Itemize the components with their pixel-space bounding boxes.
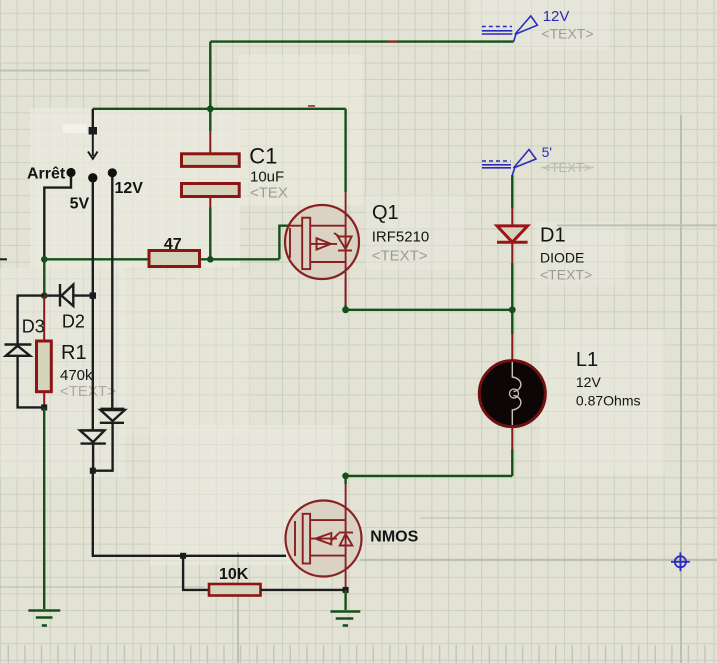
capacitor C1 pin bottom xyxy=(209,197,211,208)
wire to NMOS gate xyxy=(93,471,286,556)
svg-text:<TEXT>: <TEXT> xyxy=(372,248,428,265)
wire NMOS source to ground xyxy=(344,590,346,610)
node junction D2-5V xyxy=(90,292,96,298)
wire C1 bottom to gate net xyxy=(209,208,211,260)
wire D3 to junction B xyxy=(18,356,45,408)
wire gate net down to R1 xyxy=(43,259,45,295)
svg-text:<TEX: <TEX xyxy=(250,184,288,201)
diode D1 xyxy=(497,208,528,263)
transistor Q1 xyxy=(285,192,359,305)
terminal dot 12V xyxy=(108,168,117,177)
wire 12V rail horizontal xyxy=(210,40,513,42)
svg-text:D3: D3 xyxy=(22,317,45,337)
wire 12V diode to 5V line xyxy=(93,423,113,471)
diode series 5V line xyxy=(80,430,106,443)
wire lamp bottom xyxy=(511,426,513,449)
svg-text:<TEXT>: <TEXT> xyxy=(541,25,593,41)
svg-text:<TEXT>: <TEXT> xyxy=(540,266,592,282)
wire tee down to 10K xyxy=(183,556,209,590)
wire Q1 source from rail xyxy=(344,109,346,193)
wire switch drop black xyxy=(92,109,94,127)
wire 10K to NMOS source xyxy=(261,589,346,591)
wire rail drop to C1 junction xyxy=(209,42,211,109)
left edge dash artifact xyxy=(0,258,7,260)
switch actuator arrow xyxy=(88,135,98,159)
switch contact square xyxy=(89,127,97,135)
diode series 12V line xyxy=(100,409,125,423)
node C1-top junction xyxy=(207,105,214,112)
svg-text:L1: L1 xyxy=(576,349,598,371)
svg-text:10uF: 10uF xyxy=(250,169,284,186)
node junction C1 bottom xyxy=(207,256,214,263)
node junction gate tee xyxy=(180,553,186,559)
node junction at 44.3,259.3 xyxy=(41,256,48,263)
wire R1 to ground xyxy=(43,407,45,609)
node junction B xyxy=(41,404,47,410)
node junction D2-gate xyxy=(41,292,48,299)
lamp L1 xyxy=(479,361,545,427)
resistor R1 xyxy=(37,296,52,408)
svg-text:Q1: Q1 xyxy=(372,202,399,224)
svg-text:5V: 5V xyxy=(70,196,90,213)
svg-text:<TEXT>: <TEXT> xyxy=(60,383,116,400)
svg-text:DIODE: DIODE xyxy=(540,250,584,266)
bottom strip grid ticks xyxy=(8,645,705,663)
terminal dot Arret xyxy=(66,168,75,177)
wire Q1 drain down xyxy=(345,279,347,305)
svg-text:R1: R1 xyxy=(61,342,87,364)
svg-text:IRF5210: IRF5210 xyxy=(372,229,430,246)
wire lamp to NMOS drain xyxy=(346,475,513,477)
wire Arret to gate node xyxy=(44,176,71,259)
resistor 10K xyxy=(209,584,261,596)
diode D3 xyxy=(5,345,32,356)
svg-text:NMOS: NMOS xyxy=(370,528,418,545)
ground left xyxy=(28,611,60,626)
wire D3 branch xyxy=(18,296,45,345)
washed redraw patches xyxy=(0,0,665,565)
wire 47 to C1 node xyxy=(200,258,279,260)
wire D1 to junction xyxy=(511,263,513,310)
svg-text:47: 47 xyxy=(164,236,182,253)
transistor NMOS xyxy=(286,484,362,590)
svg-text:12V: 12V xyxy=(576,374,602,390)
wire riser to Q1 gate xyxy=(279,226,289,260)
svg-text:0.87Ohms: 0.87Ohms xyxy=(576,393,641,409)
terminal dot 5V xyxy=(88,173,97,182)
svg-text:12V: 12V xyxy=(115,180,144,197)
red tick artifact on rail xyxy=(388,41,397,43)
node Q1 drain junction xyxy=(342,306,349,313)
power terminal 12V xyxy=(482,16,538,42)
origin marker xyxy=(671,552,690,571)
svg-text:D2: D2 xyxy=(62,312,85,332)
node lamp column junction xyxy=(509,306,516,313)
wire 5V diode down xyxy=(92,296,95,471)
wire gate net horizontal xyxy=(44,258,149,260)
capacitor C1 pin top xyxy=(209,131,211,154)
node junction source xyxy=(343,587,349,593)
wire NMOS drain xyxy=(344,476,346,484)
power terminal 5' xyxy=(482,150,536,176)
diode D2 xyxy=(44,284,93,307)
wire 12V line xyxy=(111,177,113,409)
node NMOS drain junction xyxy=(342,473,349,480)
svg-text:5': 5' xyxy=(542,144,552,160)
ground NMOS xyxy=(330,612,360,626)
svg-text:470k: 470k xyxy=(60,367,93,384)
red tick artifact near node xyxy=(308,105,315,107)
svg-text:Arrêt: Arrêt xyxy=(27,166,66,183)
wire horizontal node at y108.8 xyxy=(93,108,346,110)
svg-text:D1: D1 xyxy=(540,225,566,247)
wire drain to lamp column xyxy=(346,309,513,311)
label TEXT (5') xyxy=(541,160,594,175)
svg-text:C1: C1 xyxy=(249,144,277,169)
wire junction to lamp xyxy=(511,310,513,334)
wire 5V line xyxy=(92,182,94,296)
node junction diodes xyxy=(90,468,96,474)
resistor 47 xyxy=(149,251,200,267)
capacitor C1 plates xyxy=(182,154,240,167)
svg-text:12V: 12V xyxy=(543,8,570,25)
svg-text:10K: 10K xyxy=(219,566,249,583)
wire 5' terminal to D1 xyxy=(511,175,513,208)
